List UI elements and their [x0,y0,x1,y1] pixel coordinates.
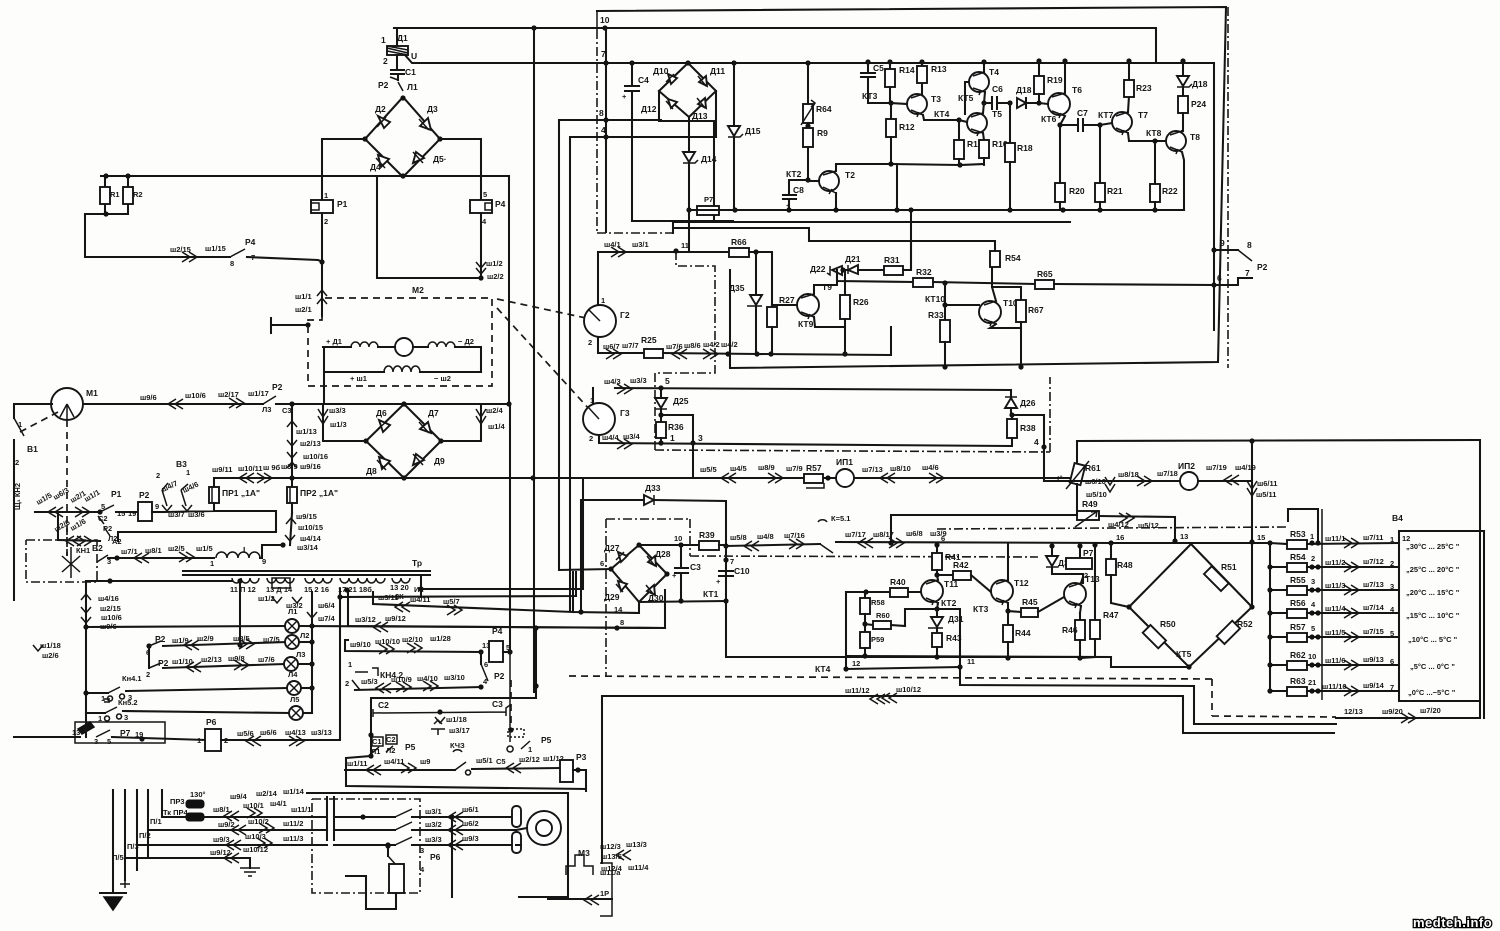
resistor R23 [1128,61,1130,80]
svg-text:С7: С7 [1077,108,1088,118]
capacitor C3b [675,545,688,601]
svg-text:R67: R67 [1028,305,1044,315]
svg-text:R9: R9 [817,128,828,138]
svg-text:С3: С3 [690,562,701,572]
svg-text:ш6/1: ш6/1 [462,805,479,814]
wire IP2 top y441 [1077,440,1478,441]
svg-text:КН1: КН1 [76,546,90,555]
diode D7 [420,422,431,433]
relay coil P4b [478,649,483,654]
svg-text:ш9/15: ш9/15 [296,512,317,521]
svg-text:ш1/2: ш1/2 [258,594,275,603]
wire bridge right to P4 column [440,139,481,199]
svg-text:Д1: Д1 [397,33,408,43]
svg-text:Р2: Р2 [272,382,283,392]
svg-text:Л3: Л3 [262,405,271,414]
svg-text:Д25: Д25 [673,396,689,406]
ground main [100,892,126,894]
svg-text:ш5/7: ш5/7 [443,597,460,606]
motor M1 [51,388,83,420]
ground chassis2 [240,868,260,876]
svg-text:1: 1 [186,468,190,477]
wire bridge2 bottom long [214,477,1078,479]
svg-text:2: 2 [588,338,592,347]
wire P5 bottom loop [346,756,586,789]
resistor R33 [944,305,946,320]
transistor T8 [1166,131,1186,151]
svg-text:ш7/12: ш7/12 [1363,557,1384,566]
diode D21 [843,269,848,271]
svg-text:8: 8 [599,108,604,118]
svg-text:ш10/12: ш10/12 [896,685,921,694]
svg-text:2: 2 [15,458,19,467]
resistor R22 [1154,141,1156,184]
svg-text:R52: R52 [1237,619,1253,629]
diode D8 [379,457,390,469]
svg-text:Д18: Д18 [1016,85,1032,95]
svg-text:Д8: Д8 [366,466,377,476]
arrester D1 [396,28,398,46]
svg-text:ш9/11: ш9/11 [212,465,232,474]
svg-text:+: + [622,92,627,101]
svg-text:Г3: Г3 [620,408,630,418]
diode D13 [698,98,706,108]
svg-text:R20: R20 [1069,186,1085,196]
svg-text:ш5/3: ш5/3 [361,677,378,686]
wire M1 row [84,403,263,405]
svg-text:ш 9б: ш 9б [263,463,281,472]
svg-text:Д14: Д14 [701,154,717,164]
svg-text:3: 3 [698,433,703,443]
resistor R57 row5 [1270,636,1287,638]
svg-text:ш7/9: ш7/9 [786,464,803,473]
svg-text:13: 13 [482,641,490,650]
svg-text:+: + [716,577,721,586]
genset G2 [597,252,599,305]
wire bridge27 top to R39 [639,544,699,546]
lamp L1 [285,619,299,633]
dashed boundary bottom [569,676,1336,717]
svg-text:ш6/7: ш6/7 [603,342,620,351]
svg-text:ш3/1: ш3/1 [632,240,649,249]
resistor R48 [1110,543,1112,559]
svg-text:С5: С5 [496,757,506,766]
svg-text:3: 3 [1311,577,1315,586]
svg-text:ш10/3: ш10/3 [245,832,266,841]
svg-text:ш7/16: ш7/16 [784,531,805,540]
svg-text:ш4/2: ш4/2 [721,340,738,349]
svg-text:13: 13 [72,728,80,737]
svg-text:ш9/6: ш9/6 [140,393,157,402]
svg-text:15 2 16: 15 2 16 [304,585,329,594]
contacts in box [334,816,395,818]
svg-text:ш1/11: ш1/11 [347,759,367,768]
diode D18a [1007,100,1012,105]
svg-text:ш7/20: ш7/20 [1420,706,1441,715]
svg-text:ш1/13: ш1/13 [296,427,317,436]
svg-text:Р2: Р2 [494,671,505,681]
resistor R45 [1021,608,1038,617]
svg-text:ш3/12: ш3/12 [355,615,376,624]
svg-text:ш2/13: ш2/13 [201,655,222,664]
svg-text:1: 1 [197,736,201,745]
aux box right [600,863,612,916]
svg-text:ш11/1: ш11/1 [291,805,311,814]
box chain edge left [597,30,673,233]
diode D25 [660,388,662,398]
wire net8b lower y628 [348,590,665,628]
transistor T7 [1112,112,1132,132]
svg-text:Л5: Л5 [290,695,299,704]
wire M1 left drop B1 [14,404,52,418]
resistor R60 [862,621,867,626]
svg-text:R32: R32 [916,267,932,277]
svg-text:Л2: Л2 [386,746,395,755]
output wire 12/13 [1336,717,1480,719]
svg-text:ш1/17: ш1/17 [248,389,269,398]
node KT4 [956,117,961,122]
svg-text:1: 1 [381,35,386,45]
svg-text:R12: R12 [899,122,915,132]
svg-text:ш7/7: ш7/7 [622,341,639,350]
wire net4 [570,137,716,611]
switch B2 [97,555,108,562]
svg-text:2: 2 [1390,559,1394,568]
wire G3 bottom row y443 [599,435,1010,446]
wire sh4/3 row y388 [615,388,1011,390]
svg-text:Л2: Л2 [300,631,309,640]
svg-text:1: 1 [590,396,594,405]
lamp L2 [285,635,299,649]
resistor R7 [689,209,735,211]
svg-text:Р1: Р1 [337,199,348,209]
M1 dashed pointer down [66,420,68,556]
svg-text:ш3/3: ш3/3 [630,376,647,385]
connector P2 right [1211,247,1216,252]
wire PR2 label col [290,513,292,545]
svg-text:2: 2 [1084,571,1088,580]
node KT3 [888,100,893,105]
wire R1R2 bottom [85,213,128,215]
svg-text:8: 8 [230,259,234,268]
svg-text:R26: R26 [853,297,869,307]
svg-text:„10°С ... 5°С ": „10°С ... 5°С " [1408,635,1458,644]
wire P5 row y770 [345,769,455,771]
svg-text:ш11/4: ш11/4 [1325,604,1346,613]
transformer secondary coils [232,578,259,583]
svg-text:7: 7 [1245,268,1250,278]
svg-text:„5°С ... 0°С ": „5°С ... 0°С " [1410,662,1455,671]
svg-text:ш10/11: ш10/11 [238,464,263,473]
resistor R26 [844,270,846,295]
motor M3 [527,811,561,845]
M2 armature winding D1-D2 [323,346,351,348]
svg-text:2: 2 [1311,554,1315,563]
svg-text:R33: R33 [928,310,944,320]
svg-text:ш1/1: ш1/1 [295,292,312,301]
svg-text:М2: М2 [412,285,424,295]
svg-text:+ Д1: + Д1 [326,337,342,346]
svg-text:+ ш1: + ш1 [350,374,367,383]
thin bundle line [1321,509,1323,700]
resistor R12 [890,103,892,119]
svg-text:R54: R54 [1290,552,1306,562]
svg-text:15: 15 [117,509,125,518]
svg-text:Д11: Д11 [710,66,725,76]
svg-text:R13: R13 [931,64,947,74]
wire transformer I2 link [421,478,583,597]
svg-text:ш9/16: ш9/16 [300,462,321,471]
svg-text:ш3/13: ш3/13 [311,728,332,737]
svg-text:ш11/5: ш11/5 [1325,628,1345,637]
svg-text:КТ6: КТ6 [1041,114,1057,124]
svg-text:С8: С8 [793,185,804,195]
resistor R19 [1038,61,1040,76]
svg-text:Д18: Д18 [1192,79,1208,89]
svg-text:2: 2 [383,56,388,66]
svg-text:R23: R23 [1136,83,1152,93]
svg-text:− Д2: − Д2 [458,337,474,346]
transistor T2 [819,171,839,191]
resistor R18 [1009,103,1011,143]
svg-text:Д22: Д22 [810,264,826,274]
resistor R32 [913,278,933,287]
vertical feeds x452 [451,817,453,897]
svg-text:А2: А2 [112,537,122,546]
box inner bottom line y222 [673,222,1070,233]
svg-text:В2: В2 [92,543,103,553]
wire secondary base link [340,572,576,597]
svg-text:12: 12 [852,659,860,668]
T12 emitter net [1005,608,1010,613]
wire sh5/8 long row [726,542,1111,546]
svg-text:Д33: Д33 [645,483,661,493]
diode D2 [378,116,390,128]
wire upper link y241 [673,228,995,241]
M2 stator winding box [324,347,481,404]
svg-text:Д9: Д9 [434,456,445,466]
svg-text:ш3/14: ш3/14 [297,543,319,552]
svg-text:R66: R66 [731,237,747,247]
svg-text:R42: R42 [953,560,969,570]
contact P6b [385,843,390,848]
fuse PR1 [213,478,215,487]
wire R49 link row [891,515,1077,543]
resistor R1 [104,176,106,214]
svg-text:10: 10 [674,534,682,543]
svg-text:Р2: Р2 [139,490,150,500]
bridge2 right branch [441,404,481,441]
svg-text:R57: R57 [806,463,822,473]
svg-text:Д2: Д2 [375,104,386,114]
resistor R20 [1059,125,1061,183]
svg-text:ш5/10: ш5/10 [1086,490,1107,499]
transistor T5 [967,113,987,133]
switch P2 (L1) [390,77,403,91]
zener D26 [1010,390,1012,398]
svg-text:ш1/3: ш1/3 [330,420,347,429]
svg-text:Р59: Р59 [871,635,884,644]
svg-text:Тр: Тр [412,558,422,568]
motor M2 dashed box [308,298,492,386]
mains lines [113,790,162,893]
resistor R27 [771,305,773,309]
wire left drop to P4 switch [85,214,230,257]
section box A [307,793,568,897]
svg-text:Д21: Д21 [845,254,861,264]
svg-text:R38: R38 [1020,423,1036,433]
svg-text:ш10/6: ш10/6 [101,613,122,622]
resistor R54 row2 [1270,566,1287,568]
bridge wires [659,91,716,221]
svg-text:ш11/1: ш11/1 [1325,534,1345,543]
wire P1 row y512 [35,511,100,513]
svg-text:ш9/10: ш9/10 [350,640,371,649]
resistor R55 row3 [1270,589,1287,591]
svg-text:3: 3 [94,737,98,746]
diode D3 [420,118,431,130]
svg-text:R60: R60 [876,611,890,620]
zener D35 [755,252,757,295]
svg-text:ш8/9: ш8/9 [758,463,775,472]
svg-text:7: 7 [730,557,734,566]
svg-text:ш11/6: ш11/6 [1325,656,1345,665]
switch P2 on M1 row [263,396,276,404]
chain box contacts [312,799,420,893]
svg-text:R31: R31 [884,255,900,265]
svg-text:R55: R55 [1290,575,1306,585]
transistor T11 [921,580,943,602]
vertical x606 [605,28,607,232]
svg-text:М1: М1 [86,388,98,398]
svg-text:11: 11 [967,657,975,666]
svg-text:1: 1 [601,296,605,305]
svg-text:П/1: П/1 [150,817,162,826]
svg-text:Р5: Р5 [405,742,416,752]
svg-text:Р6: Р6 [206,717,217,727]
svg-text:1Р: 1Р [600,889,609,898]
svg-text:Р4: Р4 [495,199,506,209]
svg-text:R62: R62 [1290,650,1306,660]
wire net 7 from D1 [405,55,1214,63]
svg-text:ш8/5: ш8/5 [233,634,250,643]
switch P4 [230,249,245,257]
svg-text:ш10/15: ш10/15 [298,523,323,532]
wire KT1 drop to rail [726,601,1111,657]
svg-text:Тк ПР4: Тк ПР4 [163,808,189,817]
resistor R40 [890,588,908,597]
svg-text:ш1/14: ш1/14 [283,787,305,796]
resistor R21 [1099,125,1101,183]
lamp L5 [289,706,303,720]
transistor T10 [979,301,1001,323]
svg-text:3: 3 [1390,582,1394,591]
svg-text:R2: R2 [133,190,143,199]
svg-text:ПР1 „1А": ПР1 „1А" [222,488,260,498]
wire x509 drop [508,176,510,404]
svg-text:Т4: Т4 [989,67,999,77]
svg-text:R65: R65 [1037,269,1053,279]
svg-text:ш4/6: ш4/6 [922,463,939,472]
svg-text:ш4/14: ш4/14 [300,534,322,543]
svg-text:КТ8: КТ8 [1146,128,1162,138]
svg-text:„25°С ... 20°С ": „25°С ... 20°С " [1406,565,1460,574]
svg-text:6: 6 [941,534,945,543]
svg-text:Т2: Т2 [845,170,855,180]
svg-text:ш1/18: ш1/18 [446,715,467,724]
resistor R63 row7 [1270,690,1287,692]
contact KN4.1 row L4 [86,692,108,694]
svg-text:R49: R49 [1082,499,1098,509]
resistor R46 [1079,613,1081,620]
svg-text:R46: R46 [1062,625,1078,635]
svg-text:ш4/11: ш4/11 [384,757,404,766]
capacitor C7 [1057,122,1062,127]
svg-text:ш7/1: ш7/1 [121,547,138,556]
staircase wire A [960,667,1336,724]
svg-text:5: 5 [1390,629,1394,638]
svg-text:ш1/5: ш1/5 [196,544,213,553]
svg-text:КТ3: КТ3 [973,604,989,614]
svg-text:6: 6 [1217,273,1222,283]
svg-text:Р2: Р2 [1257,262,1268,272]
svg-text:13 20: 13 20 [390,583,409,592]
wire P4 col to sh1/2 [377,176,481,278]
svg-text:ИП2: ИП2 [1178,461,1195,471]
svg-text:ш9/3: ш9/3 [462,834,479,843]
svg-text:ш13/3: ш13/3 [626,840,647,849]
svg-text:И2: И2 [414,585,424,594]
svg-text:R36: R36 [668,422,684,432]
svg-text:ш3/2: ш3/2 [425,820,442,829]
svg-text:Д10: Д10 [653,66,669,76]
resistor R65 [1035,280,1054,289]
svg-text:ш7/13: ш7/13 [1363,580,1384,589]
svg-text:5: 5 [1311,624,1315,633]
emitter rail lower y657 [846,656,1111,667]
svg-text:„0°С ...−5°С ": „0°С ...−5°С " [1408,688,1456,697]
svg-text:К=5.1: К=5.1 [831,514,850,523]
svg-text:ш9/14: ш9/14 [1363,681,1385,690]
svg-text:R14: R14 [899,65,915,75]
svg-text:Д28: Д28 [655,549,671,559]
svg-text:2: 2 [146,670,150,679]
wire bridge27 bottom left y612 [573,572,639,613]
svg-text:8: 8 [1247,240,1252,250]
svg-text:ш4/8: ш4/8 [757,532,774,541]
resistor R59 [864,624,866,632]
resistor R54 [994,241,996,251]
svg-text:Р7: Р7 [1083,548,1094,558]
bracket over R53 [1288,509,1318,541]
svg-text:130°: 130° [190,790,206,799]
svg-text:1: 1 [348,660,352,669]
svg-text:R51: R51 [1221,562,1237,572]
svg-text:ш7/6: ш7/6 [258,655,275,664]
svg-text:ш2/12: ш2/12 [519,755,540,764]
svg-text:19: 19 [128,509,136,518]
wire sh4/1 row to R66 [598,251,729,253]
svg-text:I: I [243,545,245,555]
wire sec bottom vertical [601,696,603,863]
diode D11 [699,76,707,86]
svg-text:ш1/2: ш1/2 [486,259,503,268]
svg-text:ш5/11: ш5/11 [1256,490,1276,499]
wire sh3/11 row [373,592,573,612]
svg-text:П/2: П/2 [139,831,151,840]
svg-text:Г2: Г2 [620,310,630,320]
svg-text:ш4/1: ш4/1 [604,240,621,249]
